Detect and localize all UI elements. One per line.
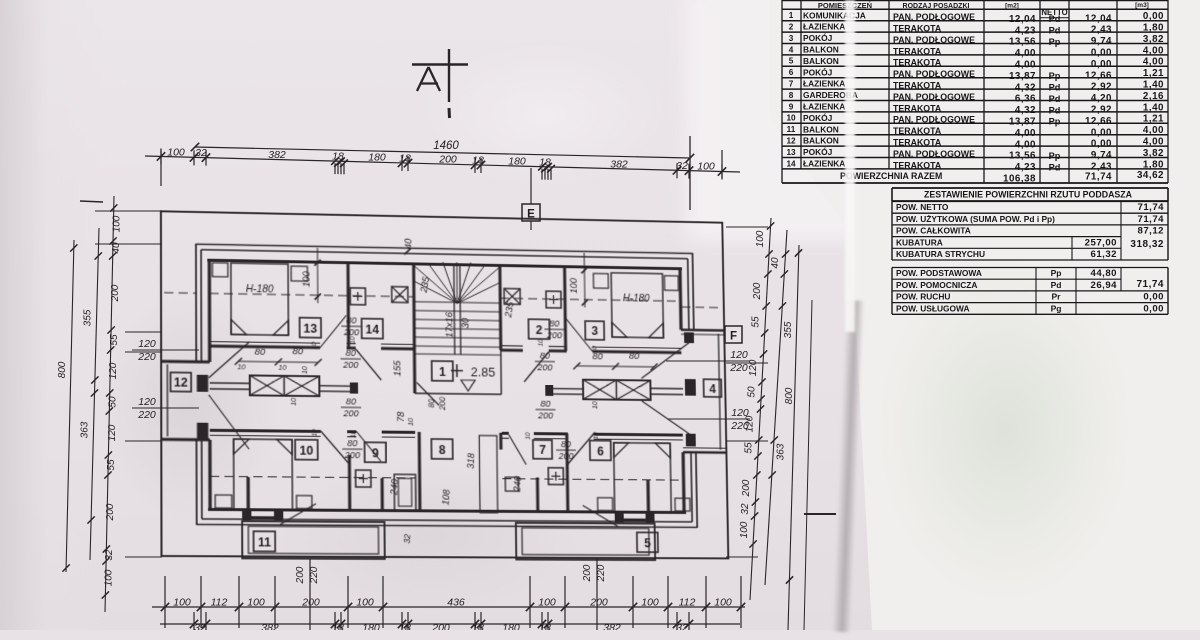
svg-text:4,00: 4,00 [1015,48,1036,59]
svg-text:0,00: 0,00 [1143,303,1164,314]
svg-text:[m2]: [m2] [1005,3,1019,10]
svg-text:12,66: 12,66 [1085,116,1112,127]
svg-text:9: 9 [789,102,794,111]
svg-text:0,00: 0,00 [1143,292,1164,303]
svg-text:12,04: 12,04 [1085,13,1112,24]
svg-text:13,56: 13,56 [1009,151,1036,162]
svg-text:4,32: 4,32 [1015,82,1036,93]
svg-text:POW. USŁUGOWA: POW. USŁUGOWA [896,303,970,313]
svg-text:44,80: 44,80 [1090,268,1117,279]
svg-text:BALKON: BALKON [803,45,839,55]
svg-text:Pd: Pd [1049,83,1061,93]
svg-text:POW. POMOCNICZA: POW. POMOCNICZA [896,280,977,290]
svg-text:13,87: 13,87 [1009,71,1036,82]
svg-text:Pp: Pp [1049,37,1061,47]
svg-text:Pg: Pg [1051,303,1062,313]
svg-text:13,87: 13,87 [1009,117,1036,128]
svg-text:POW. UŻYTKOWA (SUMA POW. Pd i: POW. UŻYTKOWA (SUMA POW. Pd i Pp) [896,214,1055,224]
svg-text:0,00: 0,00 [1091,48,1112,59]
svg-text:7: 7 [789,80,794,89]
svg-text:8: 8 [789,91,794,100]
svg-text:34,62: 34,62 [1137,170,1164,181]
svg-text:2,43: 2,43 [1091,25,1112,36]
svg-text:Pp: Pp [1049,117,1061,127]
svg-text:ŁAZIENKA: ŁAZIENKA [803,22,845,32]
svg-text:4,23: 4,23 [1015,25,1036,36]
svg-text:POW. NETTO: POW. NETTO [896,202,949,212]
svg-text:10: 10 [786,114,796,123]
svg-text:5: 5 [789,57,794,66]
svg-text:3: 3 [789,34,794,43]
svg-text:ZESTAWIENIE POWIERZCHNI RZUTU: ZESTAWIENIE POWIERZCHNI RZUTU PODDASZA [924,190,1133,200]
svg-text:ŁAZIENKA: ŁAZIENKA [803,102,845,112]
svg-text:12,66: 12,66 [1085,70,1112,81]
svg-text:Pp: Pp [1049,151,1061,161]
svg-text:BALKON: BALKON [803,136,839,146]
svg-text:0,00: 0,00 [1091,59,1112,70]
svg-text:6: 6 [789,68,794,77]
svg-text:ŁAZIENKA: ŁAZIENKA [803,79,845,89]
svg-text:Pd: Pd [1049,26,1061,36]
svg-text:257,00: 257,00 [1085,237,1117,248]
svg-text:12,04: 12,04 [1009,14,1036,25]
svg-text:Pd: Pd [1049,162,1061,172]
svg-text:13: 13 [786,148,796,157]
svg-text:4: 4 [789,45,794,54]
svg-text:4,23: 4,23 [1015,162,1036,173]
svg-text:2: 2 [789,23,794,32]
svg-text:71,74: 71,74 [1085,171,1112,182]
svg-text:POKÓJ: POKÓJ [803,66,833,77]
svg-text:6,36: 6,36 [1015,94,1036,105]
svg-text:BALKON: BALKON [803,124,839,134]
svg-text:POKÓJ: POKÓJ [803,112,833,123]
svg-text:POW. CAŁKOWITA: POW. CAŁKOWITA [896,226,971,236]
svg-text:POWIERZCHNIA RAZEM: POWIERZCHNIA RAZEM [840,171,942,181]
svg-text:POKÓJ: POKÓJ [803,146,833,157]
svg-text:KUBATURA: KUBATURA [896,237,943,247]
svg-text:9,74: 9,74 [1091,150,1112,161]
svg-text:4,00: 4,00 [1015,128,1036,139]
svg-text:POW. PODSTAWOWA: POW. PODSTAWOWA [896,268,982,278]
svg-text:71,74: 71,74 [1136,279,1164,290]
svg-text:2,92: 2,92 [1091,82,1112,93]
svg-text:4,00: 4,00 [1015,139,1036,150]
svg-text:13,56: 13,56 [1009,37,1036,48]
svg-text:2,92: 2,92 [1091,105,1112,116]
svg-text:71,74: 71,74 [1137,202,1164,213]
svg-text:12: 12 [786,137,796,146]
svg-text:BALKON: BALKON [803,56,839,66]
svg-text:4,32: 4,32 [1015,105,1036,116]
svg-text:Pd: Pd [1051,280,1062,290]
svg-text:POKÓJ: POKÓJ [803,32,833,43]
svg-text:ŁAZIENKA: ŁAZIENKA [803,159,845,169]
svg-text:9,74: 9,74 [1091,36,1112,47]
svg-text:11: 11 [787,125,796,134]
svg-text:4,00: 4,00 [1015,60,1036,71]
svg-text:71,74: 71,74 [1137,214,1164,225]
svg-text:KOMUNIKACJA: KOMUNIKACJA [803,10,866,20]
svg-text:Pp: Pp [1049,71,1061,81]
svg-text:61,32: 61,32 [1090,249,1117,260]
svg-text:87,12: 87,12 [1137,226,1164,237]
svg-text:KUBATURA STRYCHU: KUBATURA STRYCHU [896,249,985,259]
svg-text:26,94: 26,94 [1090,280,1117,291]
svg-text:Pr: Pr [1052,292,1062,302]
svg-text:POW. RUCHU: POW. RUCHU [896,292,950,302]
svg-text:0,00: 0,00 [1091,127,1112,138]
svg-text:4,20: 4,20 [1091,93,1112,104]
svg-text:1: 1 [789,11,794,20]
svg-text:Pp: Pp [1051,268,1062,278]
svg-text:0,00: 0,00 [1091,139,1112,150]
svg-text:Pd: Pd [1049,94,1061,104]
svg-text:Pd: Pd [1049,14,1061,24]
svg-text:Pd: Pd [1049,105,1061,115]
svg-text:318,32: 318,32 [1130,239,1164,250]
svg-text:[m3]: [m3] [1135,2,1149,9]
svg-text:14: 14 [786,159,796,168]
